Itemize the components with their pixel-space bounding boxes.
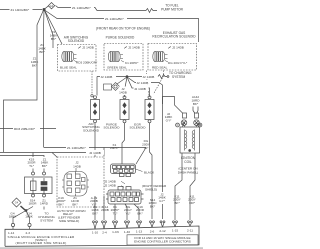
svg-text:18BK: 18BK — [25, 215, 34, 219]
svg-text:J2 14DB: J2 14DB — [137, 81, 149, 85]
label Z1 14DG/BK* (mid) — [66, 145, 89, 150]
wire BK pair top right — [192, 95, 201, 114]
label Z1 14BK BK* (bottom) — [91, 205, 100, 215]
node bus junction — [126, 75, 129, 78]
svg-text:BK*: BK* — [32, 63, 38, 67]
wire cap box feed — [32, 153, 34, 173]
label A-14 20DB (relay pin) — [90, 196, 98, 206]
svg-text:G4: G4 — [15, 201, 19, 205]
svg-text:PUMP MOTOR: PUMP MOTOR — [161, 8, 184, 12]
svg-text:BK*: BK* — [174, 201, 180, 205]
vacuum line from air solenoid — [91, 71, 93, 95]
label RD3 20BK/OR* — [74, 60, 98, 64]
wire fan J2 14DB a — [127, 77, 163, 104]
label TO CHARGING SYSTEM (right) — [169, 71, 192, 79]
wire Z1 branch to left bus — [4, 10, 44, 152]
svg-text:RD3 20BK/OR*: RD3 20BK/OR* — [76, 60, 98, 64]
svg-text:BK*: BK* — [58, 202, 64, 206]
SMEC ground terminal 2 — [28, 222, 31, 229]
air switching solenoid title — [64, 35, 89, 43]
air switching solenoid coil — [62, 52, 77, 62]
svg-text:BK*: BK* — [72, 202, 78, 206]
svg-text:SOLENOID: SOLENOID — [104, 126, 121, 130]
svg-text:TL*: TL* — [113, 211, 119, 215]
svg-text:SOLENOID: SOLENOID — [83, 128, 100, 132]
label RIGHT FENDER SHIELD — [142, 184, 167, 192]
ignition coil terminal hook — [163, 97, 183, 114]
svg-text:2-12: 2-12 — [159, 229, 165, 233]
wire relay out 2 — [103, 196, 105, 220]
label J2 14DB (bus right) — [142, 74, 158, 79]
wire coil out J2 — [162, 104, 164, 219]
ground splice diamond G4 top — [45, 3, 55, 10]
label S14 18BK — [25, 212, 34, 219]
svg-text:J2 14DB: J2 14DB — [104, 179, 116, 183]
SMEC connector rail — [5, 226, 199, 246]
label Z1 14BK — [40, 157, 50, 169]
svg-text:BK*: BK* — [39, 50, 45, 54]
label AUTO SHUT-DOWN RELAY — [57, 209, 85, 223]
svg-text:J2 14DB: J2 14DB — [143, 75, 155, 79]
svg-text:1-15: 1-15 — [172, 229, 178, 233]
purge solenoid dashed box — [104, 44, 143, 71]
ignition coil primary terminals — [181, 113, 199, 125]
terminal pin 6 — [150, 221, 155, 228]
label TO CHARGING SYSTEM (lower) — [38, 212, 55, 223]
svg-text:BLACK: BLACK — [144, 171, 155, 175]
label A14 20DG OR* (bottom) — [188, 195, 196, 205]
svg-text:Z1 14DG/BK*: Z1 14DG/BK* — [67, 146, 87, 150]
SMEC box — [5, 229, 85, 246]
label Z1 14BK BK* (branch 3) — [50, 30, 59, 41]
wire right edge down — [190, 153, 195, 220]
svg-text:J2 14DB: J2 14DB — [89, 151, 101, 155]
purge solenoid coil — [108, 52, 123, 62]
svg-text:GY*: GY* — [159, 199, 165, 203]
label J2 14DB (relay) — [73, 161, 81, 169]
wire Z1 into inline connector — [44, 148, 147, 165]
svg-text:BK*: BK* — [92, 211, 98, 215]
svg-text:TL*: TL* — [29, 164, 35, 168]
svg-text:BK*: BK* — [137, 211, 143, 215]
svg-text:BK*: BK* — [51, 37, 57, 41]
svg-text:SYSTEM: SYSTEM — [40, 218, 53, 222]
label PURGE SOLENOID (connector) — [104, 123, 121, 130]
label Z1 14DG/BK* (right run) — [104, 16, 127, 21]
svg-text:1-10: 1-10 — [92, 231, 98, 235]
wire coil out A — [175, 153, 182, 220]
svg-text:SYSTEM: SYSTEM — [172, 75, 185, 79]
label IGNITION COIL — [178, 156, 198, 174]
svg-text:J2 14DB: J2 14DB — [104, 184, 116, 188]
label SMEC — [8, 235, 76, 245]
EGR solenoid coil — [153, 52, 168, 62]
svg-text:GY*: GY* — [166, 118, 172, 122]
SMEC ground terminal 1 — [11, 222, 14, 229]
node splice junction — [43, 8, 46, 11]
terminal pin 8 — [173, 221, 178, 227]
label TO FUEL PUMP MOTOR — [161, 4, 184, 12]
svg-text:J2 14DB: J2 14DB — [128, 46, 140, 50]
svg-text:SOLENOID: SOLENOID — [68, 39, 85, 43]
wire relay out 1 — [94, 196, 96, 220]
label S14 20DG BK* (bottom) — [173, 195, 181, 205]
wire J2 14DB long — [0, 150, 104, 158]
air switching solenoid dashed box — [58, 45, 97, 72]
svg-text:BLUE SEAL: BLUE SEAL — [60, 65, 77, 69]
terminal pin 3 — [113, 221, 118, 229]
svg-text:2-4: 2-4 — [102, 230, 107, 234]
label K19 20OR BK* (relay pin) — [56, 196, 66, 206]
wire Z1 14DG/BK* right run — [45, 10, 199, 42]
svg-text:14DB: 14DB — [73, 164, 81, 168]
wire connector out DG — [125, 204, 127, 220]
wire Z1 branch 3 — [45, 10, 54, 48]
wire connector out K19 — [134, 204, 139, 220]
svg-text:Z1 14DG/BK*: Z1 14DG/BK* — [72, 6, 92, 10]
svg-text:20DB: 20DB — [101, 208, 109, 212]
label EGR SOLENOID (connector) — [130, 123, 147, 130]
svg-text:J2 14DB: J2 14DB — [101, 75, 113, 79]
label Z1 14DG/BK* (top left) — [10, 7, 33, 12]
label K1 20PK* — [121, 61, 139, 65]
label K19 20OR — [27, 157, 37, 169]
label BLACK — [136, 169, 156, 175]
EGR connector — [145, 96, 154, 123]
EGR solenoid title — [152, 31, 196, 39]
wire Z1 branch 2 — [43, 10, 46, 147]
ASD relay dashed box — [57, 157, 104, 207]
wire purge connector down to inline connector — [110, 123, 124, 164]
terminal pin 7 — [160, 221, 165, 227]
wire connector out K1 — [114, 204, 116, 220]
svg-text:1-13: 1-13 — [136, 230, 142, 234]
svg-text:OR*: OR* — [189, 201, 196, 205]
wire cap to ground junction — [13, 207, 44, 223]
label AIR SWITCHING SOLENOID (connector) — [82, 122, 100, 132]
svg-text:YL*: YL* — [126, 211, 132, 215]
svg-text:SOLENOID: SOLENOID — [130, 126, 147, 130]
wire to charging system squiggle — [158, 75, 169, 79]
label J2 14DB arrow b — [104, 184, 124, 188]
ASD relay connector symbol — [62, 168, 89, 196]
terminal pin 1 — [93, 221, 98, 229]
ignition coil body — [176, 123, 202, 154]
label J2 14DB arrow a — [104, 179, 125, 184]
label DG 20GY/YL* — [165, 61, 188, 65]
svg-text:RD3 20BL/OR*: RD3 20BL/OR* — [14, 127, 36, 131]
svg-text:18BK: 18BK — [9, 215, 18, 219]
svg-text:GREEN SEAL: GREEN SEAL — [107, 65, 127, 69]
node ground junction — [25, 209, 28, 212]
svg-text:1-40: 1-40 — [124, 230, 130, 234]
wire to fuel pump motor — [56, 6, 158, 13]
terminal pin 2 — [102, 221, 107, 229]
svg-text:J2 14DB: J2 14DB — [82, 46, 94, 50]
label Z1 14DG/BK* (diamond right) — [71, 5, 94, 10]
inline connector lower half — [106, 187, 144, 205]
svg-text:2-6: 2-6 — [150, 229, 155, 233]
wire J2 14DB bus — [97, 76, 158, 78]
terminal pin 5 — [137, 221, 142, 228]
vacuum line from purge solenoid — [147, 71, 150, 96]
label DG 20GY YL* (bottom) — [124, 205, 132, 215]
EGR solenoid dashed box — [148, 44, 197, 71]
wire Z1 branch into air solenoid box — [45, 10, 63, 44]
inline connector upper half — [111, 164, 136, 177]
label Z1 14BK BK* (branch 1) — [31, 57, 40, 68]
label K19 20OR BK* (bottom2) — [136, 205, 145, 215]
label Z1 14BK BK* (branch 2) — [38, 43, 47, 54]
label K1 20PK* (bottom) — [111, 205, 121, 215]
pin number labels — [92, 228, 193, 234]
label J2 14DB (purge drop) — [119, 87, 128, 96]
svg-text:2-11: 2-11 — [187, 228, 193, 232]
svg-text:BK*: BK* — [150, 204, 156, 208]
svg-text:BK*: BK* — [193, 102, 199, 106]
label S14 18BR (bottom) — [149, 198, 158, 208]
wire Z1 14DG/BK* left feed — [0, 9, 42, 11]
svg-text:J2 14DB: J2 14DB — [134, 87, 146, 91]
label A-14 20DB (bottom) — [101, 205, 109, 212]
svg-text:14DB: 14DB — [119, 91, 127, 95]
label J2 14BK GY* (bottom) — [158, 192, 167, 204]
wire fan J2 14DB b — [127, 77, 150, 97]
air solenoid connector — [91, 96, 100, 123]
connector note box — [127, 235, 198, 245]
svg-text:SHIELD): SHIELD) — [145, 188, 157, 192]
svg-text:RECIRCULATION SOLENOID: RECIRCULATION SOLENOID — [152, 35, 196, 39]
svg-text:1-C6: 1-C6 — [112, 230, 119, 234]
svg-text:COIL: COIL — [184, 160, 192, 164]
wire RD3 20BL/OR* — [0, 126, 56, 131]
label S14 18OR (cap left out) — [28, 199, 37, 206]
label J2 14DB (purge) — [124, 46, 140, 50]
label J2 14BK GY* (hook) — [164, 112, 174, 124]
ground splice diamond G4 lower — [12, 198, 25, 210]
svg-text:J2 14DB: J2 14DB — [172, 46, 184, 50]
svg-text:RED SEAL: RED SEAL — [152, 65, 168, 69]
wire second bus — [0, 156, 44, 173]
vacuum line from EGR solenoid — [154, 71, 164, 95]
label J2 14DB (air sol) — [78, 46, 94, 50]
splice box and diamond — [104, 77, 128, 91]
svg-text:14RD: 14RD — [40, 202, 49, 206]
svg-text:PURGE SOLENOID: PURGE SOLENOID — [106, 36, 135, 40]
label J2 14DB (bus left) — [100, 74, 116, 79]
label G4 18BK — [9, 212, 18, 219]
svg-text:18OR: 18OR — [28, 202, 37, 206]
svg-text:20PK*: 20PK* — [110, 146, 120, 150]
bottom scan bar — [0, 247, 203, 249]
wire air connector down to relay — [94, 123, 96, 157]
wire stub L — [96, 77, 98, 96]
label Z1 14BK (relay pin) — [71, 196, 80, 206]
svg-text:Z1 14DG/BK*: Z1 14DG/BK* — [105, 17, 125, 21]
svg-text:Z1 14DG/BK*: Z1 14DG/BK* — [11, 8, 31, 12]
label Z1 14RD (cap right out) — [40, 199, 49, 206]
svg-text:(RIGHT FENDER SIDE SHIELD): (RIGHT FENDER SIDE SHIELD) — [15, 241, 66, 245]
purge connector — [120, 96, 129, 123]
svg-text:SIDE SHIELD): SIDE SHIELD) — [59, 219, 79, 223]
wire fan to purge connector — [125, 77, 128, 97]
svg-text:ENGINE CONTROLLER CONNECTORS: ENGINE CONTROLLER CONNECTORS — [134, 239, 191, 243]
svg-text:DG 20GY/YL*: DG 20GY/YL* — [168, 61, 188, 65]
terminal pin 4 — [125, 221, 130, 228]
svg-text:BK*: BK* — [42, 164, 48, 168]
label J2 14DB (egr) — [168, 46, 184, 50]
noise capacitor box — [25, 172, 53, 197]
svg-text:G4: G4 — [50, 4, 54, 8]
terminal pin 9 — [188, 221, 193, 226]
svg-text:K1 20PK*: K1 20PK* — [125, 61, 139, 65]
wire EGR connector down — [142, 123, 152, 219]
label FOR 14 AND 16 WAY — [134, 236, 191, 244]
svg-text:(FRONT REAR ON TOP OF ENGINE): (FRONT REAR ON TOP OF ENGINE) — [96, 26, 150, 30]
